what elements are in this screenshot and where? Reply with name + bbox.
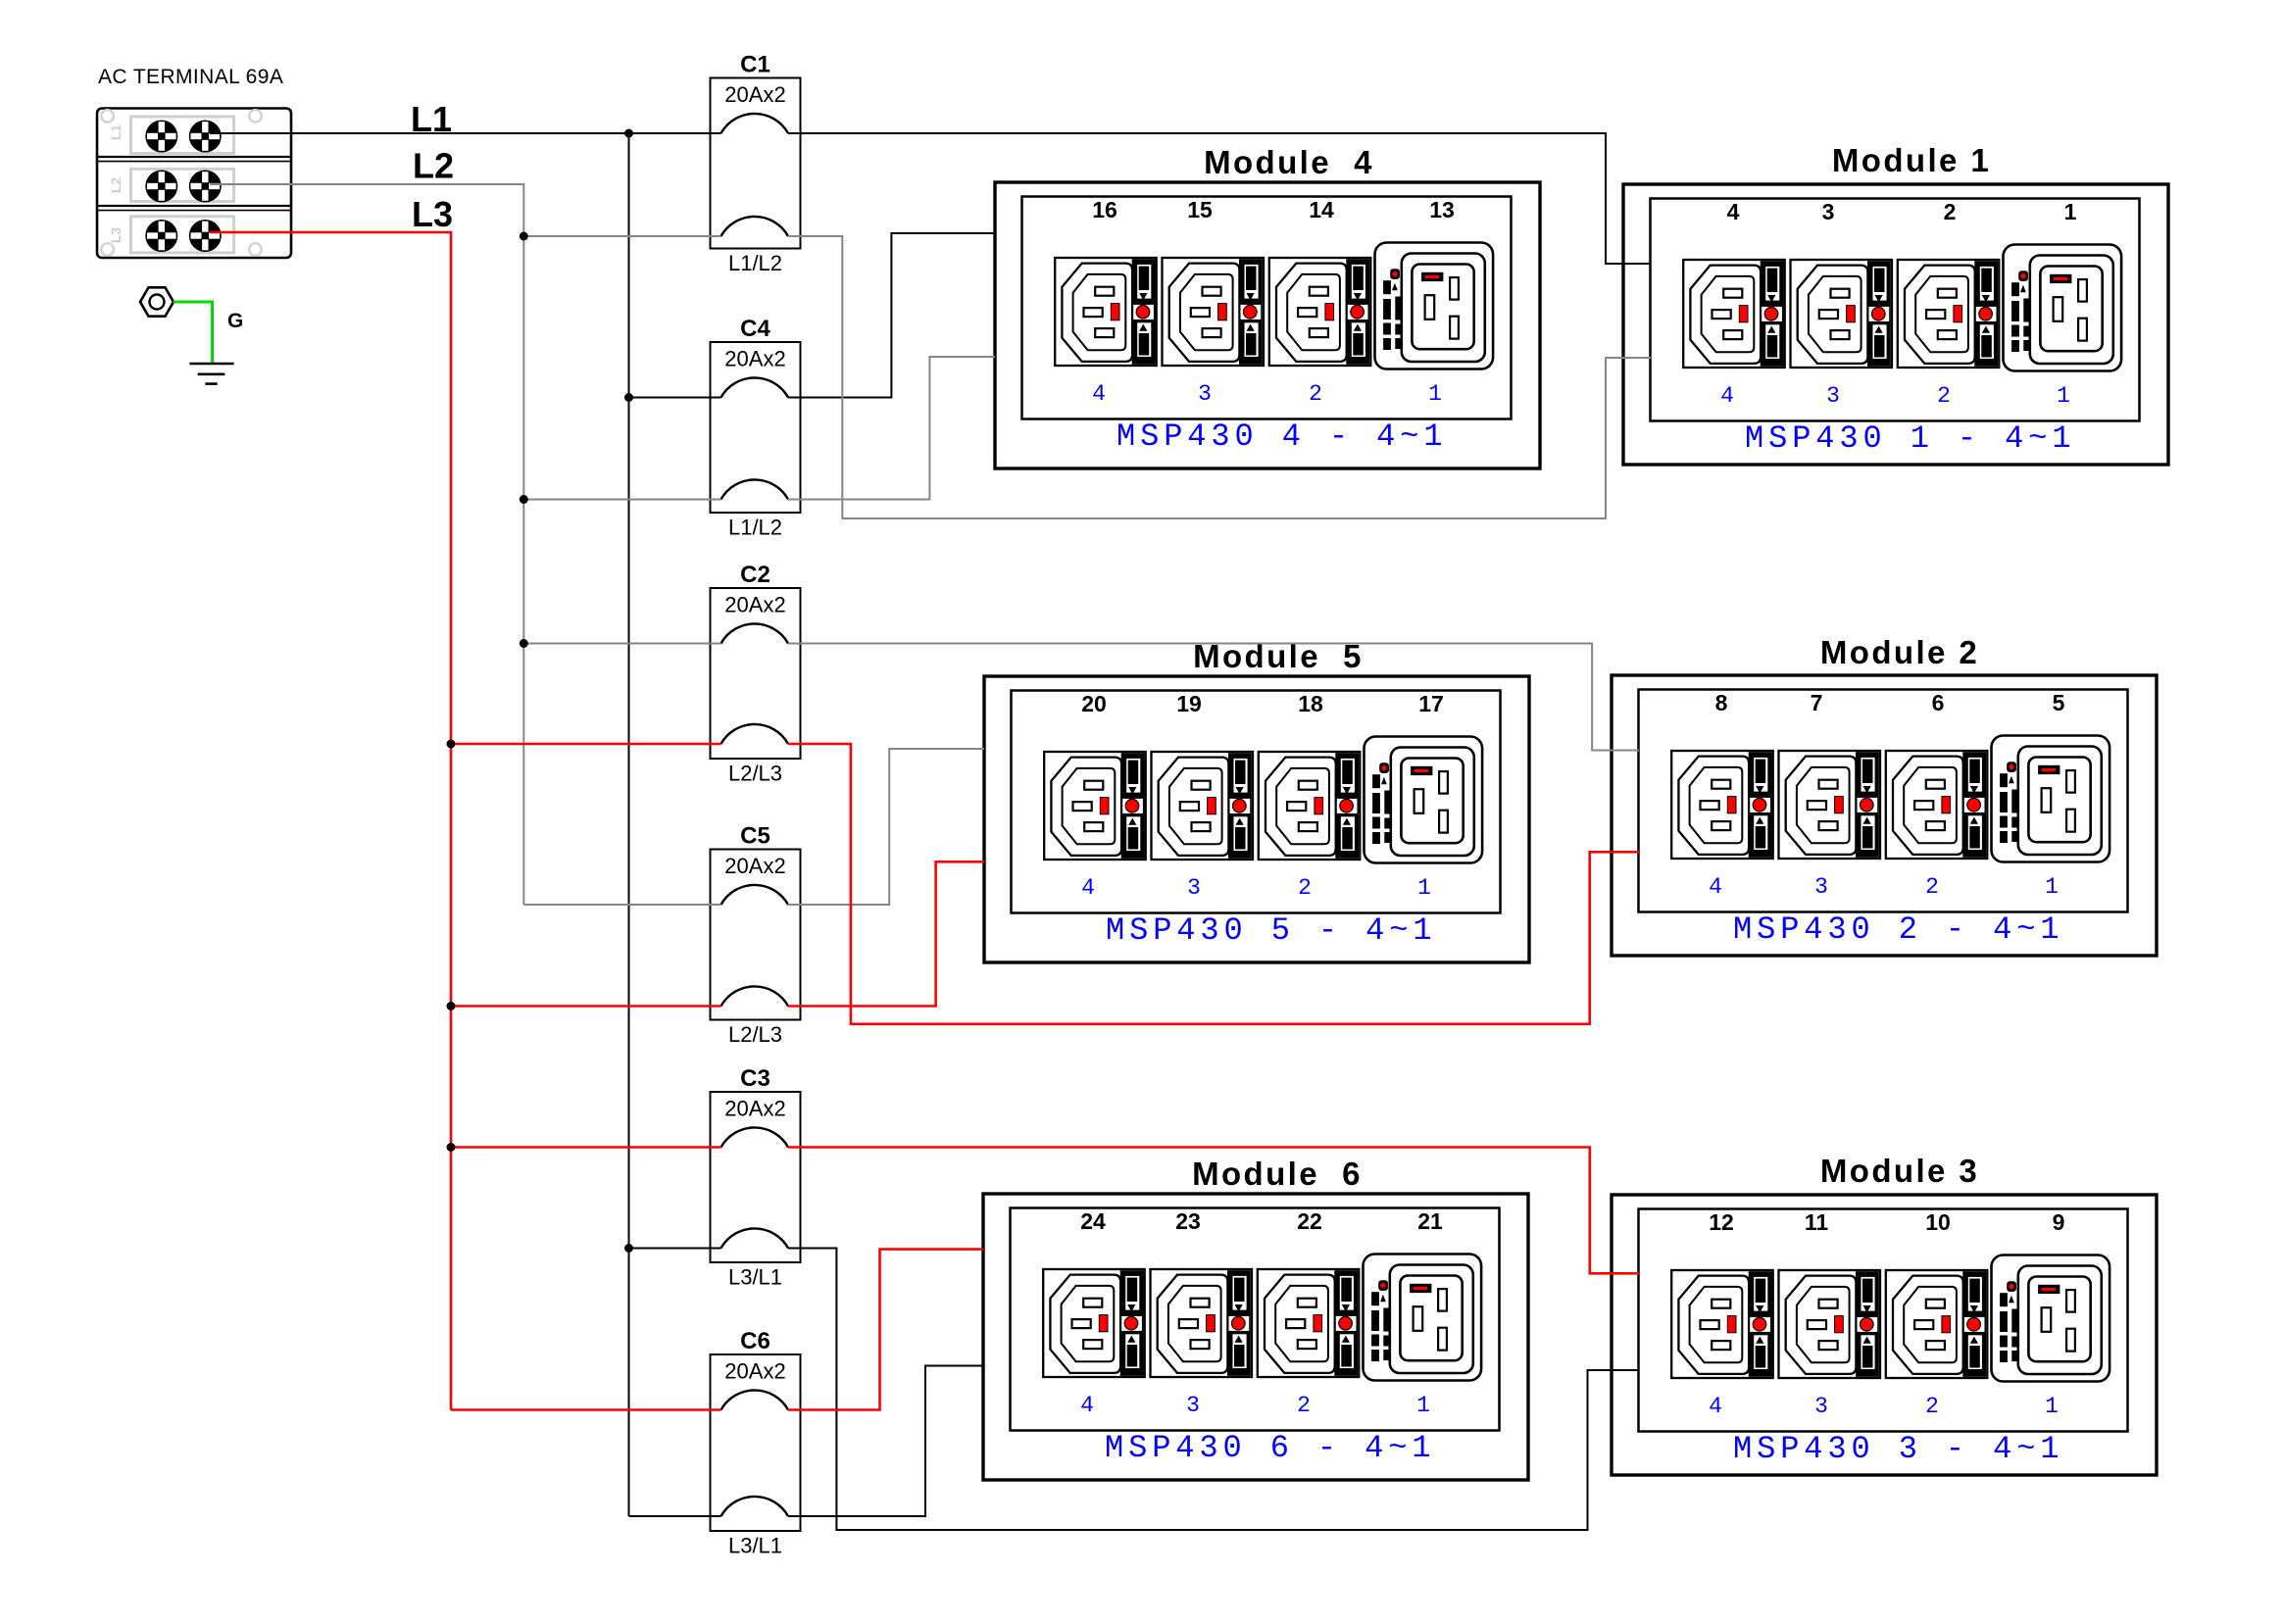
IEC C13 outlet 22 bbox=[1258, 1269, 1360, 1377]
svg-text:3: 3 bbox=[1814, 1394, 1828, 1419]
wire L3 branch to C5 bbox=[451, 1005, 721, 1008]
svg-text:L1/L2: L1/L2 bbox=[728, 516, 782, 540]
wire L2 branch to C5 bbox=[523, 904, 720, 906]
svg-text:19: 19 bbox=[1176, 691, 1202, 716]
NEMA outlet 13 bbox=[1375, 243, 1494, 369]
terminal screw bbox=[189, 121, 222, 153]
svg-text:16: 16 bbox=[1092, 197, 1117, 222]
svg-text:20Ax2: 20Ax2 bbox=[724, 593, 785, 617]
svg-text:L3: L3 bbox=[412, 194, 453, 234]
svg-text:MSP430 1 - 4~1: MSP430 1 - 4~1 bbox=[1745, 420, 2075, 457]
svg-text:17: 17 bbox=[1418, 691, 1444, 716]
svg-text:MSP430 4 - 4~1: MSP430 4 - 4~1 bbox=[1117, 418, 1447, 455]
svg-text:4: 4 bbox=[1080, 1393, 1094, 1418]
IEC C13 outlet 7 bbox=[1779, 751, 1881, 859]
svg-text:4: 4 bbox=[1092, 381, 1106, 407]
svg-text:2: 2 bbox=[1937, 383, 1951, 409]
svg-text:2: 2 bbox=[1925, 1394, 1939, 1419]
terminal screw bbox=[189, 220, 222, 252]
module box Module&#160;&#160;5 bbox=[984, 676, 1529, 962]
NEMA outlet 1 bbox=[2004, 245, 2122, 371]
svg-text:MSP430 2 - 4~1: MSP430 2 - 4~1 bbox=[1733, 911, 2063, 948]
IEC C13 outlet 16 bbox=[1055, 258, 1157, 366]
svg-text:C3: C3 bbox=[740, 1065, 770, 1092]
svg-text:2: 2 bbox=[1925, 874, 1939, 900]
svg-text:1: 1 bbox=[2064, 199, 2077, 224]
wire L2 C5 to Module 5 bbox=[788, 749, 984, 905]
junction bbox=[520, 495, 528, 504]
svg-text:4: 4 bbox=[1709, 1394, 1722, 1419]
IEC C13 outlet 15 bbox=[1163, 258, 1265, 366]
svg-text:L2: L2 bbox=[413, 146, 454, 186]
svg-text:1: 1 bbox=[1428, 381, 1442, 407]
wire L1 bus vertical bbox=[628, 133, 630, 1516]
svg-text:C5: C5 bbox=[740, 823, 770, 850]
svg-text:Module 6: Module 6 bbox=[1192, 1156, 1363, 1192]
module box Module&#160;1 bbox=[1623, 184, 2168, 465]
wire L1 C4 to Module 4 bbox=[788, 233, 995, 398]
svg-text:21: 21 bbox=[1417, 1208, 1443, 1234]
svg-text:11: 11 bbox=[1805, 1209, 1829, 1235]
svg-text:3: 3 bbox=[1826, 383, 1840, 409]
svg-text:AC TERMINAL 69A: AC TERMINAL 69A bbox=[98, 66, 283, 88]
svg-text:3: 3 bbox=[1814, 874, 1828, 900]
wire L1 C1 to Module 1 bbox=[788, 133, 1651, 264]
svg-text:L2/L3: L2/L3 bbox=[728, 762, 782, 786]
svg-text:L3/L1: L3/L1 bbox=[728, 1534, 782, 1558]
wire L3 C6 to Module 6 bbox=[788, 1250, 983, 1410]
IEC C13 outlet 14 bbox=[1269, 258, 1371, 366]
junction bbox=[447, 740, 456, 749]
IEC C13 outlet 12 bbox=[1671, 1270, 1773, 1378]
svg-text:23: 23 bbox=[1175, 1208, 1201, 1234]
NEMA outlet 21 bbox=[1364, 1255, 1482, 1381]
junction bbox=[624, 129, 633, 138]
svg-text:4: 4 bbox=[1709, 874, 1722, 900]
wire L2 from terminal, bus vertical bbox=[210, 184, 523, 905]
svg-text:4: 4 bbox=[1720, 383, 1734, 409]
IEC C13 outlet 3 bbox=[1791, 260, 1893, 368]
NEMA outlet 5 bbox=[1992, 736, 2110, 862]
svg-text:Module 1: Module 1 bbox=[1832, 142, 1991, 178]
svg-text:10: 10 bbox=[1925, 1209, 1951, 1235]
svg-text:18: 18 bbox=[1298, 691, 1323, 716]
terminal screw bbox=[145, 171, 177, 203]
wire L2 C2 to Module 2 bbox=[788, 644, 1639, 751]
svg-text:20: 20 bbox=[1081, 691, 1107, 716]
svg-text:7: 7 bbox=[1811, 690, 1823, 715]
module box Module&#160;3 bbox=[1612, 1195, 2157, 1475]
wire L3 branch to C3 bbox=[451, 1146, 721, 1149]
svg-text:C1: C1 bbox=[740, 52, 770, 78]
svg-text:Module 3: Module 3 bbox=[1820, 1153, 1979, 1189]
svg-text:1: 1 bbox=[2057, 383, 2070, 409]
wire L2 branch to C2 bbox=[523, 643, 720, 645]
IEC C13 outlet 10 bbox=[1886, 1270, 1988, 1378]
svg-text:6: 6 bbox=[1932, 690, 1945, 715]
circuit breaker C4 bbox=[711, 316, 801, 540]
svg-text:12: 12 bbox=[1709, 1209, 1734, 1235]
svg-text:Module 4: Module 4 bbox=[1204, 144, 1374, 180]
svg-text:15: 15 bbox=[1187, 197, 1213, 222]
svg-text:1: 1 bbox=[2045, 1394, 2059, 1419]
IEC C13 outlet 11 bbox=[1779, 1270, 1881, 1378]
module box Module&#160;&#160;4 bbox=[995, 182, 1540, 468]
wire L3 branch to C2 bbox=[451, 743, 721, 746]
svg-text:3: 3 bbox=[1186, 1393, 1200, 1418]
circuit breaker C3 bbox=[711, 1065, 801, 1290]
ground symbol bbox=[189, 364, 233, 384]
svg-text:MSP430 3 - 4~1: MSP430 3 - 4~1 bbox=[1733, 1431, 2063, 1467]
IEC C13 outlet 23 bbox=[1151, 1269, 1253, 1377]
IEC C13 outlet 19 bbox=[1152, 752, 1254, 860]
junction bbox=[624, 1244, 633, 1253]
circuit breaker C2 bbox=[711, 562, 801, 786]
wire L3 branch to C6 bbox=[451, 1408, 721, 1411]
svg-text:L2: L2 bbox=[108, 177, 124, 194]
svg-text:L3: L3 bbox=[108, 227, 124, 244]
wire L1 branch to C4 bbox=[629, 397, 721, 399]
wire L1 branch to C6 bbox=[629, 1515, 721, 1517]
circuit breaker C1 bbox=[711, 52, 801, 276]
svg-text:MSP430 5 - 4~1: MSP430 5 - 4~1 bbox=[1106, 912, 1436, 949]
svg-text:1: 1 bbox=[1416, 1393, 1430, 1418]
svg-text:C4: C4 bbox=[740, 316, 770, 342]
svg-text:3: 3 bbox=[1187, 875, 1201, 901]
junction bbox=[447, 1002, 456, 1010]
wire L1 C6 to Module 6 bbox=[788, 1366, 983, 1517]
svg-text:8: 8 bbox=[1715, 690, 1728, 715]
terminal screw bbox=[145, 220, 177, 252]
ground terminal nut bbox=[140, 287, 174, 316]
wire L2 C4 to Module 4 bbox=[788, 357, 995, 500]
svg-text:20Ax2: 20Ax2 bbox=[724, 1359, 785, 1384]
svg-text:1: 1 bbox=[1417, 875, 1431, 901]
svg-text:L2/L3: L2/L3 bbox=[728, 1022, 782, 1047]
svg-text:3: 3 bbox=[1198, 381, 1212, 407]
svg-text:L3/L1: L3/L1 bbox=[728, 1265, 782, 1290]
IEC C13 outlet 6 bbox=[1886, 751, 1988, 859]
junction bbox=[520, 639, 528, 648]
svg-text:2: 2 bbox=[1309, 381, 1322, 407]
svg-text:1: 1 bbox=[2045, 874, 2059, 900]
wire L2 C1 to Module 1 bbox=[788, 236, 1651, 518]
wire L1 from terminal to C1 bbox=[210, 132, 721, 134]
circuit breaker C5 bbox=[711, 823, 801, 1048]
svg-text:20Ax2: 20Ax2 bbox=[724, 1097, 785, 1121]
svg-text:24: 24 bbox=[1080, 1208, 1106, 1234]
wire L3 from terminal, bus vertical bbox=[210, 232, 451, 1410]
IEC C13 outlet 18 bbox=[1259, 752, 1361, 860]
circuit breaker C6 bbox=[711, 1328, 801, 1558]
IEC C13 outlet 4 bbox=[1683, 260, 1785, 368]
svg-text:20Ax2: 20Ax2 bbox=[724, 854, 785, 878]
junction bbox=[520, 232, 528, 241]
wire ground green bbox=[174, 302, 213, 364]
svg-text:Module 2: Module 2 bbox=[1820, 634, 1979, 670]
wire L2 branch to C4 bbox=[523, 499, 720, 501]
svg-text:14: 14 bbox=[1309, 197, 1334, 222]
IEC C13 outlet 24 bbox=[1043, 1269, 1145, 1377]
junction bbox=[624, 393, 633, 402]
terminal screw bbox=[189, 171, 222, 203]
svg-text:4: 4 bbox=[1081, 875, 1095, 901]
svg-text:L1: L1 bbox=[108, 124, 124, 141]
IEC C13 outlet 8 bbox=[1671, 751, 1773, 859]
svg-text:L1/L2: L1/L2 bbox=[728, 251, 782, 275]
junction bbox=[447, 1143, 456, 1152]
svg-text:2: 2 bbox=[1297, 1393, 1311, 1418]
svg-text:2: 2 bbox=[1944, 199, 1957, 224]
svg-text:4: 4 bbox=[1727, 199, 1740, 224]
svg-text:G: G bbox=[227, 310, 243, 332]
NEMA outlet 9 bbox=[1992, 1255, 2110, 1382]
wire L3 C2 to Module 2 bbox=[788, 744, 1639, 1024]
IEC C13 outlet 2 bbox=[1898, 260, 2000, 368]
svg-text:20Ax2: 20Ax2 bbox=[724, 347, 785, 371]
wire L3 C3 to Module 3 bbox=[788, 1148, 1639, 1274]
module box Module&#160;2 bbox=[1612, 675, 2157, 956]
wire L1 branch to C3 bbox=[629, 1248, 721, 1250]
terminal screw bbox=[145, 121, 177, 153]
svg-text:13: 13 bbox=[1429, 197, 1455, 222]
terminal block TB bbox=[97, 109, 291, 259]
svg-text:2: 2 bbox=[1298, 875, 1312, 901]
svg-text:20Ax2: 20Ax2 bbox=[724, 82, 785, 107]
svg-text:22: 22 bbox=[1297, 1208, 1322, 1234]
wire L1 C3 to Module 3 bbox=[788, 1249, 1639, 1531]
NEMA outlet 17 bbox=[1365, 737, 1483, 863]
svg-text:3: 3 bbox=[1822, 199, 1835, 224]
IEC C13 outlet 20 bbox=[1044, 752, 1146, 860]
svg-text:9: 9 bbox=[2053, 1209, 2065, 1235]
wire L2 branch to C1 bbox=[523, 235, 720, 237]
svg-text:MSP430 6 - 4~1: MSP430 6 - 4~1 bbox=[1105, 1430, 1435, 1466]
svg-text:5: 5 bbox=[2053, 690, 2065, 715]
svg-text:C6: C6 bbox=[740, 1328, 770, 1354]
module box Module&#160;&#160;6 bbox=[983, 1194, 1528, 1480]
wire L3 C5 to Module 5 bbox=[788, 861, 984, 1006]
svg-text:C2: C2 bbox=[740, 562, 770, 588]
